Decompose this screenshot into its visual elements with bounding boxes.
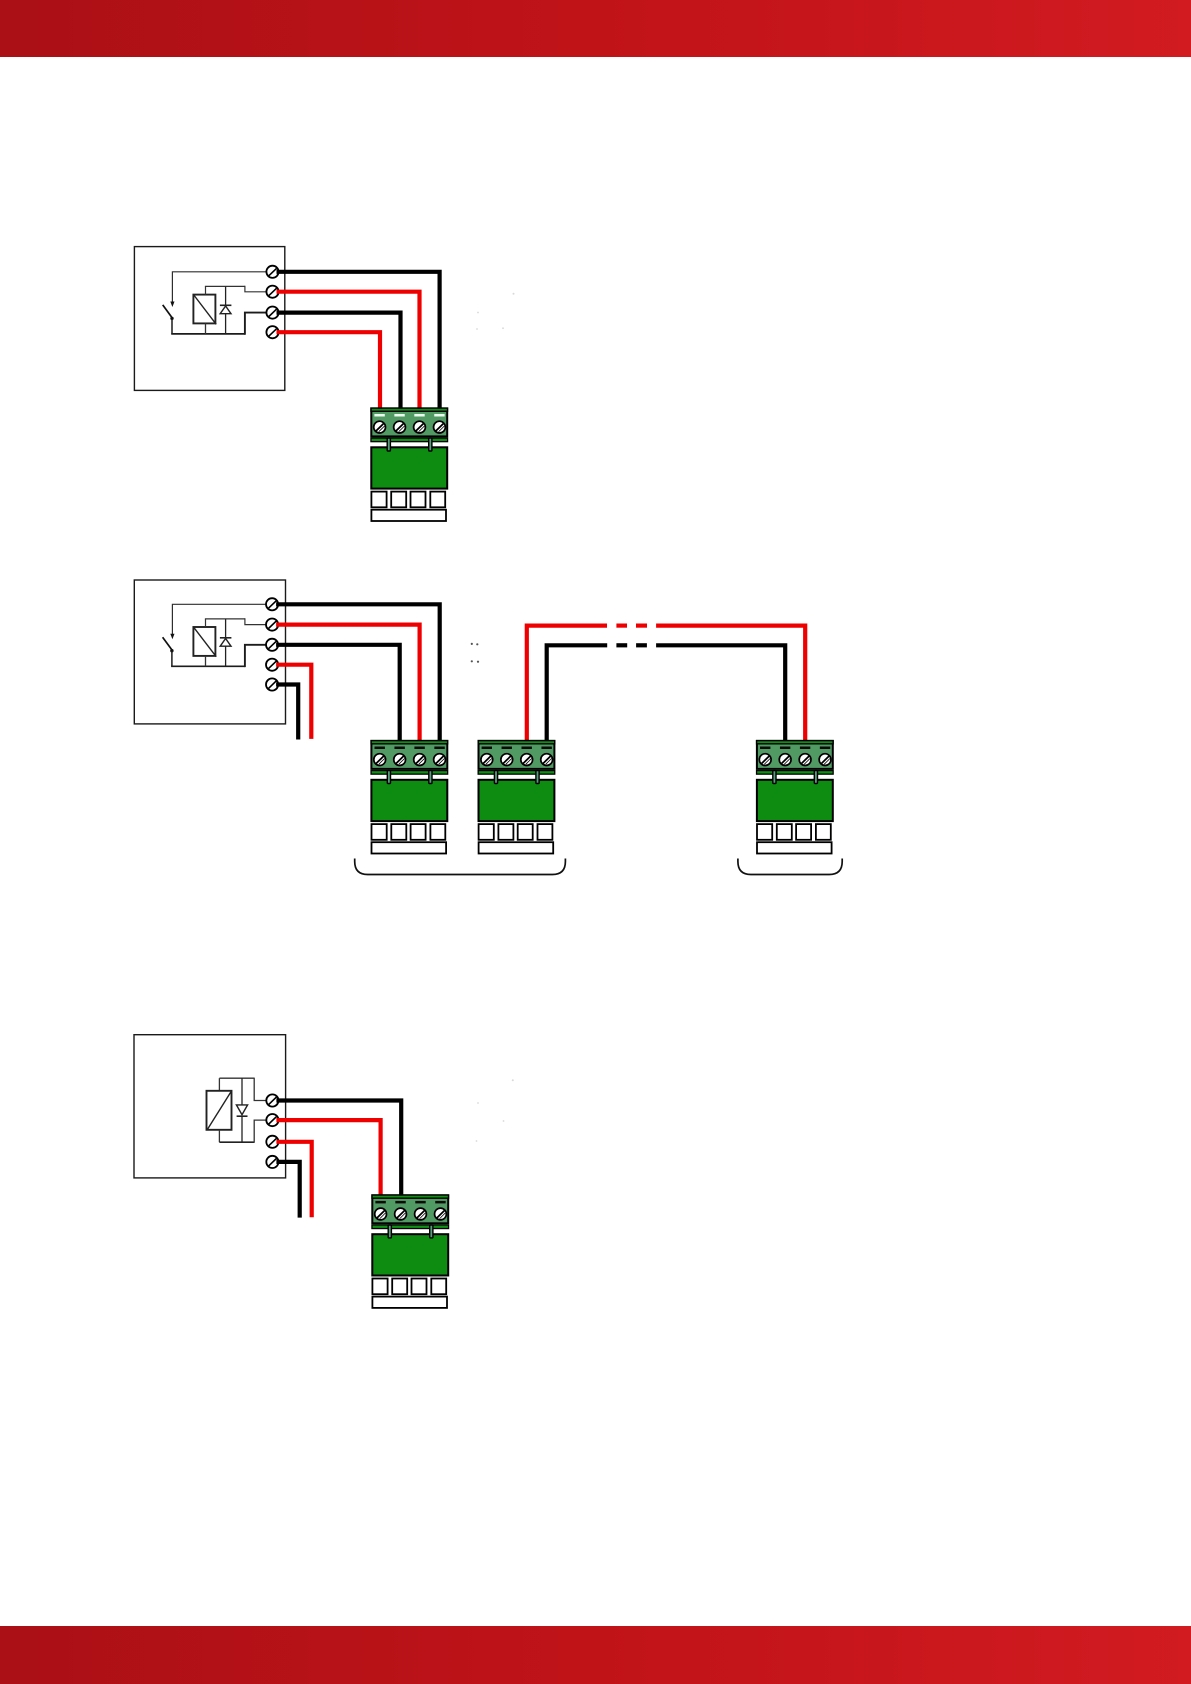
- terminal T4: [266, 659, 278, 671]
- wire switch to rail: [171, 319, 173, 334]
- relay coil K3: [207, 1091, 232, 1131]
- switch contact dot: [170, 649, 173, 652]
- coil bottom stub: [205, 323, 207, 334]
- bottom rail: [171, 333, 245, 335]
- coil top stub: [205, 286, 207, 294]
- terminal T1: [266, 1094, 278, 1106]
- zone bracket 2: [738, 859, 842, 875]
- terminal T2: [266, 286, 278, 298]
- detector box D1: [134, 247, 284, 391]
- wire rail to T3: [245, 313, 267, 335]
- diode DZ1: [220, 286, 232, 334]
- diode DZ3: [236, 1078, 247, 1142]
- top rail: [205, 618, 245, 620]
- wire black T1 to TB2 screw4: [276, 604, 440, 741]
- coil top stub: [218, 1078, 220, 1091]
- bus wire red B to C left part: [527, 626, 607, 742]
- coil top stub: [205, 619, 207, 627]
- bus black dash 2: [636, 643, 647, 647]
- switch arrow: [170, 302, 174, 308]
- ghost mark: [476, 1079, 514, 1142]
- wire black T1 to TB5 screw2: [276, 1101, 401, 1197]
- wire red T2 to TB5 screw1: [276, 1120, 380, 1196]
- wire black T3 to TB2 screw2: [276, 645, 400, 742]
- footer red band: [0, 1626, 1191, 1684]
- wire black T1 to TB1 screw4: [277, 272, 440, 409]
- switch S1 blade: [163, 305, 172, 318]
- wire rail to T3: [245, 645, 266, 667]
- terminal T2: [266, 619, 278, 631]
- top rail: [219, 1077, 254, 1079]
- zone bracket 1: [355, 859, 566, 875]
- header red band: [0, 0, 1191, 57]
- wire rail to T2: [245, 618, 266, 624]
- terminal block TB2: [371, 741, 448, 854]
- bottom rail: [171, 665, 245, 667]
- top rail: [205, 285, 245, 287]
- terminal T3: [266, 307, 278, 319]
- bus wire black B to C left part: [547, 645, 608, 741]
- terminal block TB5: [372, 1195, 449, 1308]
- switch contact dot: [170, 317, 173, 320]
- coil bottom stub: [205, 656, 207, 666]
- relay coil K2: [193, 627, 216, 657]
- switch S2 blade: [163, 637, 172, 650]
- wire red T2 to TB2 screw3: [276, 625, 420, 742]
- wire black stub T5: [276, 685, 298, 740]
- bottom rail: [219, 1141, 254, 1143]
- terminal T1: [266, 598, 278, 610]
- wire black stub T4: [276, 1162, 299, 1218]
- switch arrow: [170, 634, 174, 640]
- terminal T3: [266, 1136, 278, 1148]
- detector box D3: [134, 1035, 286, 1178]
- detector box D2: [134, 580, 285, 724]
- terminal T4: [266, 326, 278, 338]
- terminal block TB4: [757, 741, 834, 854]
- coil bottom stub: [218, 1130, 220, 1142]
- terminal block TB1: [371, 408, 448, 521]
- wire T1 internal: [172, 604, 266, 635]
- wire rail to T1: [254, 1078, 266, 1101]
- bus red dash 2: [636, 623, 647, 627]
- terminal T2: [266, 1114, 278, 1126]
- bus wire red right part: [656, 626, 805, 742]
- wire red T4 to TB1 screw1: [277, 332, 381, 409]
- bus black dash 1: [616, 643, 627, 647]
- bus red dash 1: [616, 623, 627, 627]
- terminal T3: [266, 639, 278, 651]
- wire rail to T2: [254, 1120, 266, 1143]
- diode DZ2: [220, 619, 232, 666]
- wire red T2 to TB1 screw3: [277, 292, 420, 409]
- wire red stub T4: [276, 665, 311, 739]
- terminal T4: [266, 1156, 278, 1168]
- terminal T1: [266, 266, 278, 278]
- ghost mark: [476, 293, 514, 330]
- wire rail to T2: [245, 286, 267, 292]
- wire red stub T3: [276, 1142, 311, 1217]
- terminal block TB3: [478, 741, 555, 854]
- wire black T3 to TB1 screw2: [277, 313, 401, 409]
- wire switch to rail: [171, 651, 173, 666]
- wire T1 internal: [172, 272, 266, 303]
- ellipsis dots: [471, 643, 479, 663]
- bus wire black right part: [656, 645, 785, 741]
- terminal T5: [266, 678, 278, 690]
- relay coil K1: [193, 295, 216, 325]
